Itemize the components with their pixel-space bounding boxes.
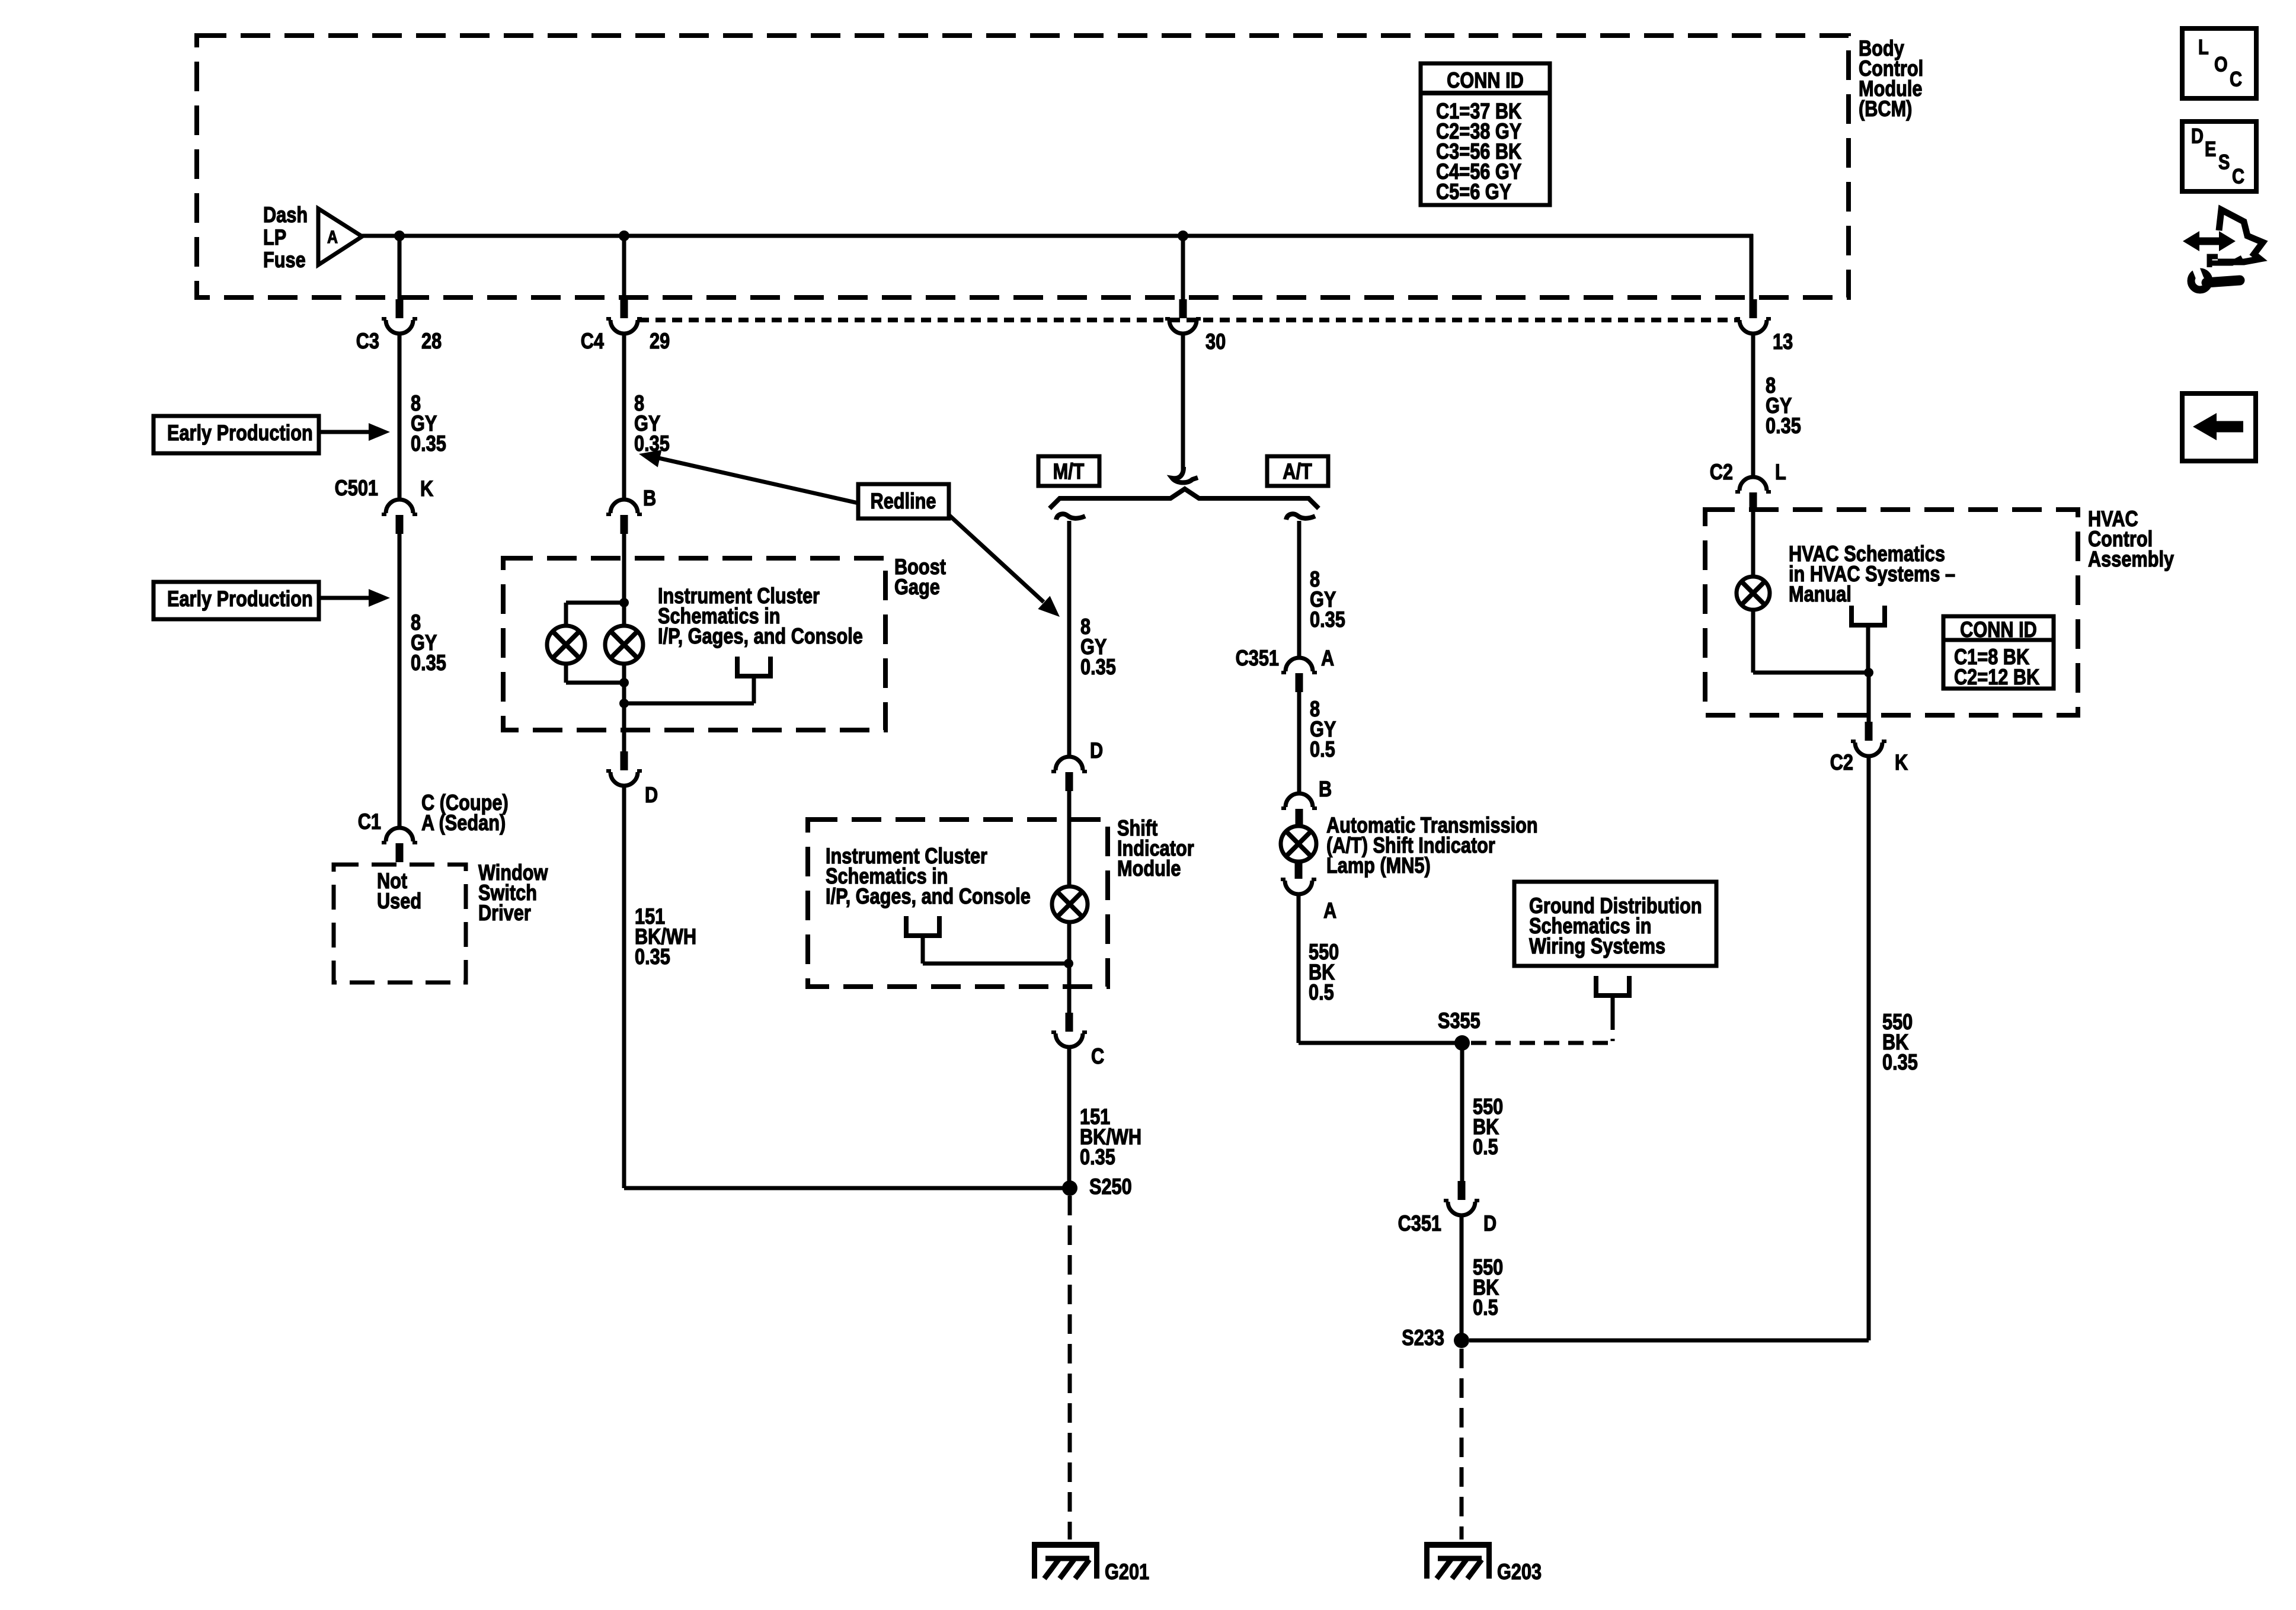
- svg-text:Used: Used: [377, 889, 421, 913]
- arrow: redline to M/T circuit: [949, 515, 1060, 617]
- wire: HVAC lamp to junction: [1751, 610, 1755, 673]
- svg-text:CONN ID: CONN ID: [1960, 617, 2037, 642]
- svg-text:A: A: [327, 227, 338, 247]
- node: bus junction at pin 30 drop: [1178, 231, 1188, 241]
- svg-text:C1: C1: [358, 809, 381, 834]
- callout box: M/T: [1038, 456, 1099, 486]
- svg-text:Redline: Redline: [871, 489, 936, 513]
- callout box: A/T: [1267, 456, 1328, 486]
- callout box: Early Production (upper): [154, 416, 319, 453]
- svg-text:C4: C4: [581, 329, 604, 353]
- node: splice S355: [1454, 1035, 1470, 1051]
- wire: HVAC junction to C2 K: [1867, 673, 1871, 724]
- wire: boost branch top horizontal: [566, 601, 624, 605]
- wire: C4 pin drop inside BCM: [622, 236, 626, 300]
- module box: HVAC Control Assembly dashed outline: [1705, 510, 2078, 715]
- svg-text:30: 30: [1205, 329, 1226, 354]
- svg-text:E: E: [2205, 137, 2216, 161]
- svg-text:0.35: 0.35: [1310, 607, 1345, 632]
- wire: pin 30 drop inside BCM: [1181, 236, 1185, 300]
- svg-text:LP: LP: [263, 225, 286, 249]
- connector: BCM C2 pin 13: [1735, 299, 1771, 334]
- svg-text:G203: G203: [1497, 1560, 1542, 1584]
- svg-text:K: K: [420, 476, 434, 501]
- svg-text:G201: G201: [1105, 1560, 1149, 1584]
- svg-text:S355: S355: [1438, 1009, 1480, 1033]
- callout box: Ground Distribution Schematics: [1514, 882, 1716, 966]
- svg-text:C: C: [1091, 1044, 1104, 1068]
- svg-text:29: 29: [650, 329, 670, 353]
- wire: shift bracket branch horizontal: [923, 962, 1069, 966]
- arrow: redline to circuit 29: [639, 450, 858, 503]
- wire: circuit into boost gage: [622, 532, 626, 628]
- symbol: circuit 30 end curl: [1172, 467, 1198, 482]
- svg-text:L: L: [1775, 460, 1786, 484]
- lamp: A/T shift indicator lamp MN5: [1281, 826, 1316, 862]
- svg-text:0.35: 0.35: [635, 945, 670, 969]
- svg-text:13: 13: [1773, 329, 1793, 354]
- wire: A/T circuit down to C351 A: [1297, 521, 1302, 658]
- svg-text:0.35: 0.35: [411, 651, 446, 675]
- svg-text:0.5: 0.5: [1310, 737, 1335, 761]
- pointer: boost gage schematic continuation bracket: [737, 657, 770, 703]
- connector: shift indicator lamp pin B: [1281, 793, 1317, 828]
- svg-text:Gage: Gage: [894, 575, 940, 599]
- wire: dotted connector line across BCM pins: [639, 318, 1738, 322]
- svg-text:D: D: [2191, 124, 2204, 148]
- svg-text:0.5: 0.5: [1473, 1135, 1498, 1159]
- connector: boost gage pin B: [606, 500, 642, 534]
- wire: boost lamps to branch node: [622, 663, 626, 703]
- icon: DESC box: [2182, 121, 2256, 191]
- ground: G201: [1032, 1542, 1099, 1579]
- wire: HVAC junction horizontal: [1753, 671, 1869, 675]
- table: BCM CONN ID box: [1421, 63, 1550, 205]
- svg-text:Early Production: Early Production: [167, 587, 313, 611]
- svg-text:C5=6 GY: C5=6 GY: [1436, 180, 1511, 204]
- svg-text:0.5: 0.5: [1309, 980, 1334, 1004]
- node: shift module internal junction: [1064, 959, 1073, 968]
- svg-text:Module: Module: [1117, 856, 1181, 881]
- svg-text:Lamp (MN5): Lamp (MN5): [1326, 853, 1431, 878]
- wire: circuit 151 from boost D to S250: [622, 786, 626, 1188]
- node: bus junction at C3 drop: [394, 231, 405, 241]
- connector: shift indicator module pin C: [1051, 1013, 1087, 1047]
- svg-text:D: D: [645, 783, 658, 807]
- connector: C351 pin D: [1444, 1181, 1479, 1215]
- wire: C3 pin drop inside BCM: [398, 236, 402, 300]
- wire: bus right drop to pin 13: [1750, 234, 1754, 300]
- svg-text:C2: C2: [1830, 750, 1853, 774]
- module box: Body Control Module (BCM) dashed outline: [197, 36, 1849, 297]
- svg-text:A: A: [1323, 898, 1336, 923]
- wire: shift module internal to lamp: [1067, 789, 1072, 887]
- svg-text:L: L: [2198, 36, 2209, 59]
- fuse: Dash LP Fuse (triangle A): [318, 209, 362, 265]
- svg-text:0.35: 0.35: [1882, 1050, 1918, 1074]
- pointer: HVAC schematic continuation bracket: [1851, 606, 1885, 673]
- svg-text:I/P, Gages, and Console: I/P, Gages, and Console: [658, 624, 863, 648]
- svg-text:C2: C2: [1710, 460, 1733, 484]
- wire: boost gage output: [622, 703, 626, 754]
- connector: shift indicator lamp pin A: [1281, 860, 1316, 894]
- symbol: A/T branch start curl: [1286, 514, 1315, 520]
- node: bus junction at C4 drop: [619, 231, 629, 241]
- wire: A/T circuit C351 to lamp B: [1297, 690, 1302, 794]
- svg-text:A: A: [1321, 646, 1334, 670]
- lamp: shift indicator bulb: [1052, 886, 1088, 922]
- ground: G203: [1424, 1542, 1492, 1579]
- module box: Boost Gage dashed outline: [503, 558, 885, 730]
- svg-text:B: B: [1319, 777, 1332, 801]
- svg-text:M/T: M/T: [1053, 459, 1085, 484]
- connector: boost gage pin D: [606, 751, 642, 786]
- symbol: option split brace M/T-A/T: [1050, 489, 1319, 508]
- node: boost internal branch: [619, 699, 629, 708]
- node: HVAC internal junction: [1864, 668, 1873, 677]
- wire: S250 to G201 (dashed): [1068, 1196, 1072, 1539]
- svg-text:S233: S233: [1402, 1326, 1444, 1350]
- connector: BCM pin 30: [1165, 299, 1201, 334]
- connector: HVAC C2 pin L: [1735, 477, 1771, 511]
- svg-text:I/P, Gages, and Console: I/P, Gages, and Console: [826, 884, 1031, 908]
- wire: left column to S250 horizontal: [624, 1186, 1070, 1190]
- svg-text:S: S: [2218, 151, 2230, 174]
- wire: S233 to G203 (dashed): [1460, 1349, 1464, 1539]
- lamp: boost gage left bulb: [547, 626, 585, 664]
- wire: boost left lamp top lead: [564, 603, 568, 628]
- pointer: shift module schematic continuation bracket: [906, 916, 939, 964]
- svg-text:D: D: [1483, 1211, 1496, 1235]
- svg-text:28: 28: [421, 329, 442, 353]
- icon: component view (car with arrow and wrench): [2183, 210, 2263, 290]
- node: boost lamp branch bottom: [619, 678, 629, 687]
- module box: Window Switch Driver (Not Used) dashed outline: [334, 865, 466, 982]
- lamp: boost gage right bulb: [605, 626, 643, 664]
- wire: HVAC internal to lamp: [1751, 508, 1755, 577]
- svg-text:0.35: 0.35: [1080, 655, 1116, 679]
- node: splice S250: [1062, 1180, 1077, 1196]
- svg-text:A (Sedan): A (Sedan): [421, 811, 506, 835]
- svg-text:C3: C3: [356, 329, 379, 353]
- wire: boost branch bottom horizontal: [566, 681, 624, 685]
- wire: circuit 28 from C3 to C501: [398, 333, 402, 501]
- svg-text:C351: C351: [1236, 646, 1279, 670]
- wire: circuit 8 GY from pin 13 to HVAC: [1751, 334, 1755, 478]
- node: splice S233: [1454, 1333, 1469, 1348]
- callout box: Early Production (lower): [154, 582, 319, 619]
- connector: C1 window switch driver: [382, 828, 417, 862]
- wire: boost branch to bracket: [624, 702, 754, 706]
- wire: S355 down to C351 D: [1460, 1043, 1464, 1183]
- svg-text:C501: C501: [335, 476, 378, 500]
- svg-text:D: D: [1090, 738, 1103, 763]
- svg-text:(BCM): (BCM): [1859, 97, 1912, 121]
- lamp: HVAC illumination bulb: [1737, 577, 1770, 610]
- callout box: Redline: [858, 484, 949, 518]
- svg-text:O: O: [2214, 53, 2228, 76]
- connector: BCM C3 pin 28: [382, 299, 417, 334]
- svg-text:Driver: Driver: [478, 901, 531, 925]
- arrow: early production upper pointer: [319, 423, 390, 441]
- icon: LOC box: [2182, 28, 2256, 98]
- svg-text:Wiring Systems: Wiring Systems: [1529, 934, 1665, 958]
- wire: circuit 28 from C501 to C1: [398, 532, 402, 829]
- wire: fuse output bus (horizontal): [360, 234, 1753, 238]
- connector: shift indicator module pin D: [1051, 757, 1087, 791]
- svg-text:C: C: [2230, 68, 2242, 91]
- svg-text:Assembly: Assembly: [2088, 547, 2174, 571]
- node: boost lamp branch top: [619, 598, 629, 607]
- wire: M/T circuit down to D: [1067, 521, 1072, 757]
- connector: C351 pin A: [1281, 658, 1317, 692]
- connector: BCM C4 pin 29: [606, 299, 642, 334]
- module box: Shift Indicator Module dashed outline: [808, 820, 1108, 987]
- icon: back arrow box: [2182, 393, 2256, 461]
- wire: circuit 29 from C4 to B: [622, 333, 626, 501]
- table: HVAC CONN ID box: [1943, 616, 2054, 690]
- svg-text:CONN ID: CONN ID: [1447, 68, 1524, 92]
- svg-text:A/T: A/T: [1283, 459, 1312, 484]
- svg-text:Manual: Manual: [1789, 582, 1851, 606]
- wire: shift module lamp to junction: [1067, 921, 1072, 1015]
- svg-text:Early Production: Early Production: [167, 421, 313, 445]
- wire: S233 horizontal to HVAC column: [1469, 1339, 1869, 1343]
- svg-text:B: B: [643, 486, 656, 510]
- svg-text:Dash: Dash: [263, 203, 308, 227]
- svg-text:Fuse: Fuse: [263, 248, 306, 272]
- wire: circuit 550 HVAC to S233: [1867, 756, 1871, 1340]
- wire: circuit 30 drop to option split: [1181, 334, 1185, 471]
- svg-text:0.35: 0.35: [1080, 1145, 1115, 1169]
- svg-text:C351: C351: [1398, 1211, 1441, 1235]
- svg-text:0.35: 0.35: [411, 431, 446, 456]
- wire: S355 to ground distribution bracket (dashed): [1471, 1014, 1615, 1043]
- svg-text:0.35: 0.35: [1766, 414, 1801, 438]
- wire: lamp branch to S355 horizontal: [1299, 1041, 1462, 1045]
- wire: circuit 550 lamp to S355: [1297, 894, 1301, 1043]
- arrow: early production lower pointer: [319, 589, 390, 607]
- svg-text:C2=12 BK: C2=12 BK: [1954, 665, 2040, 689]
- svg-text:0.5: 0.5: [1473, 1295, 1498, 1320]
- svg-text:S250: S250: [1089, 1174, 1132, 1199]
- symbol: M/T branch start curl: [1056, 514, 1085, 520]
- svg-text:C: C: [2232, 165, 2244, 188]
- wire: circuit 550 C351 to S233: [1460, 1215, 1464, 1333]
- pointer: ground distribution continuation bracket: [1596, 976, 1629, 1014]
- connector: HVAC C2 pin K: [1851, 722, 1886, 756]
- connector: C501 pin K: [382, 500, 417, 534]
- svg-text:K: K: [1895, 750, 1908, 774]
- wire: circuit 151 from shift C to S250: [1067, 1047, 1072, 1188]
- wire: boost left lamp bottom lead: [564, 663, 568, 683]
